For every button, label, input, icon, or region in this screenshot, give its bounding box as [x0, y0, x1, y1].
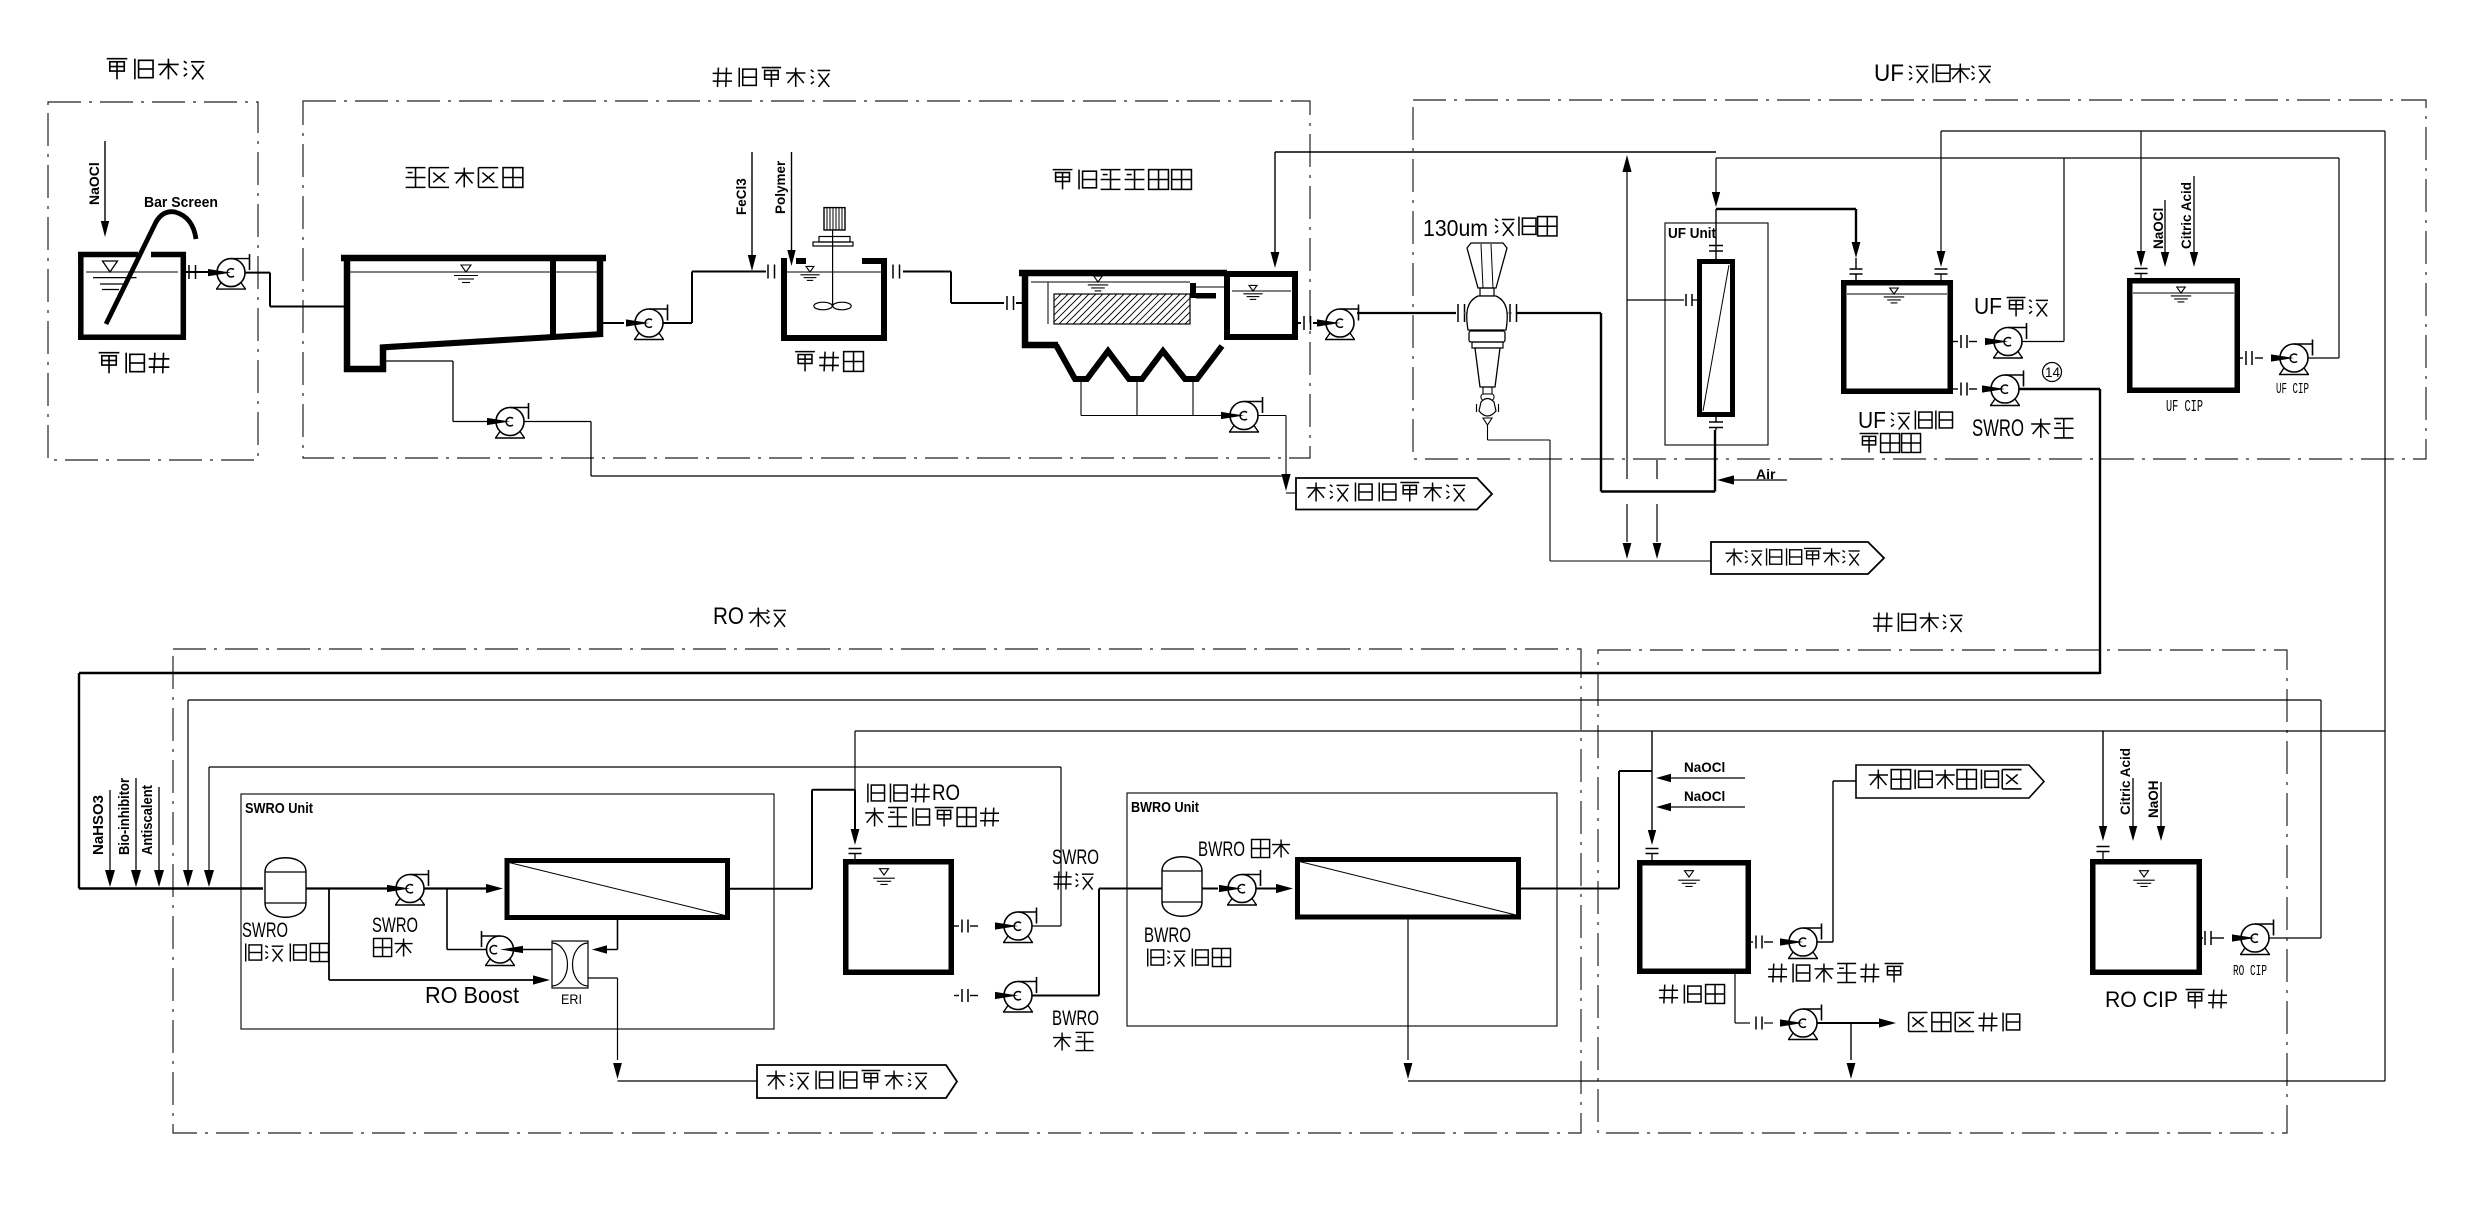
hopper drain wires	[1080, 382, 1082, 416]
wire: UF waste drop 2 with arrow	[1656, 460, 1658, 479]
pump P9: SWRO高压 (high pressure pump)	[396, 899, 401, 906]
service water collector line (bottom)	[1408, 1080, 2385, 1082]
tank T6: UF CIP tank	[2130, 281, 2238, 391]
boundary box: RO system RO系统	[173, 649, 1581, 1133]
pump P2 (grit tank transfer pump)	[635, 333, 640, 340]
waste banner 3: 至废水处理系统	[757, 1065, 957, 1098]
wire: grit tank outlet	[603, 322, 624, 324]
wire: boost pump discharge to feed junction	[447, 949, 487, 951]
pump P13: 清水输送泵浦 (transfer pump)	[1789, 952, 1794, 959]
svg-text:SWRO: SWRO	[1052, 846, 1099, 869]
chemical feed arrow: Polymer	[791, 152, 793, 252]
effluent passage lines to clear well	[1196, 286, 1224, 288]
label: 清水输送泵浦	[1768, 968, 1787, 970]
wire: tank to SWRO进流 pump	[1953, 388, 1958, 390]
svg-text:UF: UF	[1874, 60, 1904, 87]
svg-text:RO CIP: RO CIP	[2105, 987, 2178, 1012]
label: 胶凝池	[795, 351, 815, 353]
label: 清水系统 (clean water system)	[1873, 617, 1892, 619]
pump P8: UF CIP pump	[2280, 368, 2285, 375]
chemical dosing arrow: NaOCl (2)	[1656, 803, 1671, 811]
wire: pump P8 discharge riser to line B	[2308, 357, 2339, 359]
backwash return wire into clear well (from UF)	[1274, 152, 1276, 253]
water line in grit tank	[350, 271, 597, 273]
wire: clean water tank inlet drop (service + permeate)	[1651, 731, 1653, 838]
flange pair at 130um filter inlet	[1457, 304, 1459, 322]
wire: UF逆洗 pump riser	[2063, 158, 2065, 342]
mixer M1 impeller	[814, 302, 832, 310]
svg-text:Bar Screen: Bar Screen	[144, 194, 218, 211]
wire: pump P13 discharge riser to banner	[1817, 941, 1834, 943]
wire: into sedimentation tank	[1016, 302, 1024, 304]
flange pair on 2nd stage tank lower outlet	[961, 989, 963, 1002]
svg-text:BWRO: BWRO	[1198, 838, 1245, 861]
flow arrow into pump P16	[500, 946, 523, 953]
label: 取水井	[99, 352, 120, 354]
wire: UF feed (thick) down-right-up to UF unit bottom	[1600, 313, 1602, 492]
waste banner 2: 至废水处理系统	[1711, 542, 1884, 574]
flow arrow into pump P14	[1780, 1019, 1803, 1026]
wire: prefilter to pump P9	[306, 887, 393, 889]
flange on UF storage tank inlet	[1850, 268, 1863, 270]
tank T1: 取水井 (intake well)	[78, 252, 138, 258]
wire: clean water tank bottom outlet	[1734, 974, 1736, 1023]
svg-text:NaOCl: NaOCl	[2151, 208, 2166, 249]
pump P14: plant service water pump	[1789, 1033, 1794, 1040]
flange pair on sedimentation inlet	[1006, 296, 1008, 310]
water level symbol in clear well	[1249, 285, 1257, 291]
flange on 2nd stage tank inlet	[849, 848, 862, 850]
pump P16: RO Boost pump (mirrored)	[486, 959, 491, 966]
flow arrow to 厂用自来水	[1879, 1018, 1896, 1027]
inner boundary line of tube settler zone	[1047, 282, 1049, 324]
wire: RO boost join riser	[446, 889, 448, 950]
SWRO flush return arrow into feed	[208, 767, 210, 871]
svg-text:Citric Acid: Citric Acid	[2179, 182, 2194, 249]
tank T4 hopper bottom (three V hoppers)	[1056, 345, 1222, 379]
flange pair on clean water tank outlet	[1755, 936, 1757, 949]
svg-text:UF Unit: UF Unit	[1668, 225, 1716, 242]
chemical feed arrow: Antiscalent	[158, 787, 160, 871]
chemical feed arrow: NaOCl (UF CIP)	[2164, 200, 2166, 252]
wire: pump P11 discharge to BWRO unit	[1032, 995, 1100, 997]
wire: coagulation tank to sedimentation tank	[903, 271, 951, 273]
wire: intake well to pump P1	[186, 271, 214, 273]
wire: ERI spent flow to waste	[588, 977, 618, 979]
wire: pump P10 discharge riser	[1032, 925, 1062, 927]
bar screen curve (thick hooked line)	[106, 212, 196, 324]
boundary box: clean water system 清水系统	[1598, 650, 2287, 1133]
flange pair at 130um filter outlet	[1509, 304, 1511, 322]
chemical feed arrow: NaOCl into intake well	[104, 141, 106, 222]
wire: SWRO permeate to 2nd stage tank	[730, 888, 812, 890]
wire: BWRO concentrate drop	[1407, 920, 1409, 1061]
pump P1 (intake well pump)	[217, 283, 222, 290]
svg-text:Air: Air	[1756, 466, 1776, 482]
130um filter F1 body	[1467, 243, 1507, 288]
flow arrow into pump P10	[995, 922, 1018, 929]
wire: pump P9 to membrane	[424, 887, 490, 889]
chemical feed arrow: Citric Acid (UF CIP)	[2193, 176, 2195, 252]
flange pair on UF storage lower outlet	[1960, 383, 1962, 396]
tank T4 clear well (thick box)	[1227, 274, 1295, 337]
wire: pump P3 discharge to waste line	[524, 421, 592, 423]
label: 沉砂调节池 (grit adjustment tank)	[406, 167, 426, 169]
wire: tank to UF逆洗 pump	[1953, 341, 1958, 343]
svg-text:BWRO: BWRO	[1052, 1007, 1099, 1030]
svg-text:BWRO: BWRO	[1144, 924, 1191, 947]
wire: BWRO permeate to clean water tank	[1521, 888, 1619, 890]
water level symbol in coagulation tank	[806, 266, 814, 272]
svg-text:NaHSO3: NaHSO3	[90, 795, 107, 855]
wire: ERI to boost pump	[521, 949, 552, 951]
flow arrow into pump P12	[1219, 885, 1242, 892]
chemical feed arrow: Bio-inhibitor	[135, 778, 137, 871]
flow arrow into clean water tank	[1648, 830, 1656, 845]
flow arrow concentrate onto collector	[1404, 1063, 1413, 1079]
wire: UF backwash waste riser (up-arrow to sedimentation return)	[1622, 155, 1631, 172]
UF Unit boundary box	[1665, 223, 1768, 445]
svg-text:SWRO: SWRO	[242, 919, 288, 942]
wire: pump P5 discharge to 130um filter	[1357, 312, 1456, 314]
wire: UF CIP tank to pump	[2240, 357, 2243, 359]
svg-text:14: 14	[2045, 365, 2061, 380]
wire: UF filtrate riser	[1715, 209, 1717, 251]
tank T4: sedimentation tank top/left walls	[1019, 270, 1227, 277]
svg-text:NaOCl: NaOCl	[1684, 789, 1725, 804]
wire: pump P1 discharge to grit tank	[245, 272, 271, 274]
label: 前处理系统 (pretreatment system)	[713, 72, 732, 74]
wire: UF filtrate line (thick) to storage tank	[1716, 208, 1856, 210]
flow arrow into 2nd stage tank	[851, 829, 860, 845]
membrane module M-SWRO (vessel)	[507, 861, 728, 918]
wire: line A drop into UF storage tank	[1940, 131, 1942, 252]
water level symbol in clean water tank	[1685, 871, 1694, 877]
tank T5: UF过滤水贮存池 (UF filtrate storage)	[1844, 283, 1951, 392]
water level symbol in RO CIP tank	[2140, 871, 2149, 877]
flow arrow into pump P8	[2271, 354, 2294, 361]
svg-text:Polymer: Polymer	[773, 160, 788, 214]
flange pair on coagulation tank inlet	[767, 265, 769, 279]
flow arrow into pump P13	[1780, 938, 1803, 945]
destination banner: 至储水沃净水厂	[1856, 765, 2044, 798]
water level symbol in 2nd stage tank	[880, 869, 889, 875]
water level symbol in sedimentation tank	[1094, 276, 1103, 282]
energy recovery device ERI	[552, 941, 588, 988]
svg-text:SWRO: SWRO	[372, 914, 418, 937]
flange on RO CIP tank inlet	[2097, 846, 2110, 848]
SWRO Unit boundary box	[241, 794, 774, 1029]
boundary box: UF filtration system UF过滤系统	[1413, 100, 2426, 459]
wire: grit tank sludge drain	[386, 360, 453, 362]
vessel V1: SWRO prefilter (capsule)	[265, 858, 306, 918]
label: 厂用自来水	[1909, 1012, 1928, 1014]
svg-text:BWRO Unit: BWRO Unit	[1131, 799, 1199, 816]
stream number tag (14)	[2043, 363, 2062, 382]
flange pair on intake pump suction	[188, 265, 190, 279]
water line in UF CIP tank	[2133, 292, 2234, 294]
svg-text:RO Boost: RO Boost	[425, 982, 519, 1008]
tank T3: 胶凝池 (coagulation tank) walls	[781, 258, 787, 264]
wire: LP feed branch to ERI	[328, 889, 330, 981]
mixer M1 shaft	[832, 230, 834, 306]
chemical feed arrow: Citric Acid (RO CIP)	[2132, 778, 2134, 826]
flow arrow into pump P15	[2232, 934, 2255, 941]
flow arrow into pump P4	[1221, 412, 1244, 419]
wire: prefilter to pump P12	[1202, 888, 1218, 890]
wire: pump P14 discharge	[1817, 1022, 1883, 1024]
flange on UF storage tank inlet 2	[1935, 268, 1948, 270]
wire: filter outlet to UF feed drop	[1517, 312, 1601, 314]
wire: SWRO feed left riser	[78, 673, 80, 889]
flow arrow into SWRO membrane	[486, 884, 503, 893]
flange pair on coagulation tank outlet	[892, 265, 894, 279]
svg-text:UF: UF	[1858, 407, 1886, 433]
flange on UF unit bottom	[1709, 421, 1723, 423]
membrane module U1: UF unit	[1700, 262, 1733, 415]
wire: service tap down to RO CIP tank	[2102, 731, 2104, 826]
boundary box: intake system 取水系统	[48, 102, 258, 460]
chemical feed arrow: NaOH (RO CIP)	[2160, 782, 2162, 826]
wire: line A drop into UF CIP tank	[2140, 131, 2142, 252]
flow arrow into RO CIP tank	[2099, 826, 2107, 841]
flange pair on UF unit feed	[1685, 294, 1687, 306]
pump P3 (grit sludge pump)	[496, 432, 501, 439]
pump P11: BWRO进流 (BWRO feed pump)	[1004, 1006, 1009, 1013]
svg-text:RO: RO	[713, 603, 744, 630]
pump P4 (sedimentation sludge pump)	[1230, 426, 1235, 433]
service water line (mid, y=731)	[855, 730, 2385, 732]
svg-text:UF: UF	[1974, 293, 2002, 319]
tank T7: 第二段RO进流水贮存槽	[846, 862, 952, 973]
flow arrow into pump P7	[1982, 385, 2005, 392]
svg-text:SWRO: SWRO	[1972, 415, 2024, 442]
mixer M1 mounting plates	[819, 237, 850, 243]
flow arrow reject into ERI	[592, 945, 607, 953]
flow arrow down into waste banner 1	[1281, 474, 1290, 491]
thin pipe through filter	[1464, 312, 1512, 314]
svg-text:UF CIP: UF CIP	[2276, 381, 2309, 398]
svg-text:130um: 130um	[1423, 215, 1488, 241]
flow arrow into pump P11	[995, 992, 1018, 999]
svg-text:UF CIP: UF CIP	[2166, 398, 2203, 417]
svg-text:Bio-inhibitor: Bio-inhibitor	[116, 778, 133, 855]
pump P5 (sedimentation transfer pump)	[1326, 333, 1331, 340]
flange pair on bottom outlet	[1755, 1017, 1757, 1030]
svg-text:RO: RO	[932, 780, 960, 805]
flow arrow into UF storage tank	[1852, 242, 1861, 258]
flow arrow onto waste collector	[613, 1063, 622, 1079]
wire: pump P4 discharge to waste box	[1258, 415, 1287, 417]
pump P7: SWRO进流 (SWRO feed pump)	[1991, 399, 1996, 406]
flange pair on 2nd stage tank upper outlet	[961, 920, 963, 933]
svg-text:NaOCl: NaOCl	[86, 162, 102, 205]
flow arrow into BWRO membrane	[1276, 884, 1293, 893]
svg-text:NaOH: NaOH	[2146, 780, 2161, 818]
svg-text:RO CIP: RO CIP	[2233, 963, 2267, 980]
air scour arrow: Air	[1717, 475, 1734, 484]
wire: SWRO main feed line (thick top)	[79, 672, 2100, 674]
BWRO Unit boundary box	[1127, 793, 1557, 1026]
pump P10: SWRO反洗 (SWRO flush pump)	[1004, 936, 1009, 943]
svg-text:FeCl3: FeCl3	[734, 178, 749, 215]
label: 取水系统 (intake system)	[107, 58, 128, 60]
wire: SWRO feed (thick) to RO system	[2019, 388, 2101, 390]
label: 第二段RO / 进流水贮存槽	[867, 784, 869, 803]
svg-text:SWRO Unit: SWRO Unit	[245, 800, 313, 817]
wire: UF waste drop 1 with arrow	[1626, 504, 1628, 542]
water level symbol in intake well	[103, 261, 118, 272]
flange on UF CIP tank inlet	[2135, 268, 2148, 270]
svg-text:Citric Acid: Citric Acid	[2118, 748, 2133, 815]
effluent channel bar (solid)	[1190, 283, 1196, 298]
label: 清水池	[1659, 989, 1678, 991]
water line in sedimentation tank	[1031, 281, 1190, 283]
pump P6: UF逆洗 (UF backwash pump)	[1994, 352, 1999, 359]
flange on clean water tank inlet	[1646, 848, 1659, 850]
flow arrow onto collector line	[1847, 1063, 1856, 1079]
flange on UF unit top	[1709, 245, 1723, 247]
wire: pump P6 discharge	[2022, 341, 2065, 343]
backwash supply arrow onto filtrate junction	[1715, 158, 1717, 192]
backwash return line (horizontal, to UF area)	[1275, 151, 1716, 153]
tank T8: 清水池 (clean water tank)	[1640, 863, 1749, 972]
flow arrow into pump P9	[387, 885, 410, 892]
service water riser (right, to line A)	[2384, 131, 2386, 1081]
wire: SWRO reject to ERI	[617, 920, 619, 950]
flow arrow into pump P6	[1985, 338, 2008, 345]
wire: service tap down to 2nd stage tank	[854, 731, 856, 790]
water line in UF storage tank	[1847, 293, 1947, 295]
pump P15: RO CIP pump	[2241, 948, 2246, 955]
vessel V2: BWRO prefilter (capsule)	[1162, 857, 1202, 917]
water line in intake well	[86, 271, 178, 273]
wire: pump P15 discharge riser to CIP supply line	[2269, 937, 2321, 939]
waste banner 1: 至废水处理系统	[1296, 478, 1492, 510]
flange pair on clear well outlet	[1303, 316, 1305, 330]
SWRO backwash supply line (horizontal)	[209, 766, 1061, 768]
flow arrow into pump P1	[208, 269, 231, 276]
flow arrow LP feed into ERI	[533, 975, 550, 984]
wire: tank to RO CIP pump	[2202, 937, 2203, 939]
wire: SWRO feed line into unit	[79, 887, 263, 889]
wire: to waste banner 3	[618, 1080, 758, 1082]
RO CIP supply line (long horizontal)	[188, 699, 2321, 701]
water line in coagulation tank	[787, 271, 881, 273]
boundary box: pretreatment system 前处理系统	[303, 101, 1310, 458]
flange pair on UF storage upper outlet	[1960, 335, 1962, 348]
wire: pump P2 to coagulation tank	[663, 322, 693, 324]
wire: pump P12 to BWRO membrane	[1256, 888, 1280, 890]
chemical feed arrow: FeCl3	[751, 152, 753, 257]
flange pair on RO CIP tank outlet	[2204, 931, 2206, 945]
pump P12: BWRO高压 (BWRO HP pump)	[1228, 899, 1233, 906]
backwash supply line B (from pumps to UF unit)	[1716, 157, 2339, 159]
water level symbol in UF storage tank	[1890, 288, 1899, 294]
wire: UF feed branch to unit	[1627, 299, 1684, 301]
wire: tank to transfer pump	[1751, 941, 1753, 943]
wire: tank to BWRO进流 pump	[954, 995, 959, 997]
chemical feed arrow: NaHSO3	[109, 790, 111, 871]
flow arrow into pump P2	[626, 319, 649, 326]
service water line A (top)	[1941, 130, 2385, 132]
flow arrow into pump P3	[487, 418, 510, 425]
water line in clear well	[1232, 290, 1291, 292]
wire: clear well to pump P5	[1298, 322, 1301, 324]
mixer M1 motor (hatched)	[824, 208, 845, 230]
label: 倾斜管沉淀池	[1053, 169, 1073, 171]
flow arrow into pump P5	[1317, 319, 1340, 326]
flange pair on UF CIP outlet	[2245, 351, 2247, 365]
membrane module M-BWRO (vessel)	[1298, 860, 1519, 918]
svg-text:Antiscalent: Antiscalent	[139, 785, 156, 855]
wire: tank to SWRO反洗 pump	[954, 925, 959, 927]
water level symbol in UF CIP tank	[2177, 287, 2186, 293]
chemical dosing arrow: NaOCl (1)	[1656, 774, 1671, 782]
wire: service branch down to collector	[1850, 1023, 1852, 1060]
RO CIP return arrow into feed	[187, 700, 189, 871]
wire: to service pump	[1764, 1022, 1773, 1024]
svg-text:ERI: ERI	[561, 991, 582, 1007]
tank T2: 沉砂调节池 walls	[341, 255, 606, 262]
wire: 130um filter drain to waste	[1487, 425, 1489, 440]
water level symbol in grit tank	[461, 265, 471, 272]
svg-text:NaOCl: NaOCl	[1684, 760, 1725, 775]
tank T9: RO CIP贮槽	[2093, 862, 2200, 973]
